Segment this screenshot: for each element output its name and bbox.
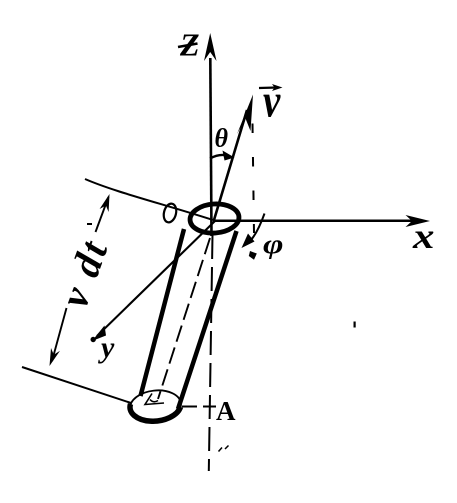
svg-text:A: A [216,396,236,426]
speck near x-axis [354,322,356,328]
z-axis arrowhead [204,33,217,61]
svg-text:θ: θ [215,124,229,153]
cylinder right side [178,231,237,409]
svg-text:x: x [412,216,435,256]
angle mark inside bottom face [145,394,164,405]
horizontal dashed line to A [182,406,216,408]
specks below A [219,446,229,452]
svg-text:φ: φ [263,229,284,259]
phi arc blot [249,251,257,260]
label z [178,27,200,63]
angle phi arc [248,214,265,244]
theta arc arrowhead [223,151,235,161]
x-axis line [213,220,424,223]
dimension line v dt upper segment [96,197,109,232]
extension line (bottom) [22,367,131,403]
angle theta arc [210,155,229,159]
dimension lower arrowhead [50,348,61,366]
vector v arrowhead [237,95,253,135]
svg-text:y: y [98,331,115,364]
extension line through O (top) [85,179,213,220]
z-axis line [210,58,211,236]
cylinder top face ellipse [189,202,240,234]
vector v line [214,110,247,220]
cylinder left side [141,229,185,396]
dimension upper arrowhead [100,194,110,212]
label O (origin) [162,202,178,223]
cylinder bottom face ellipse (thin top arc) [129,388,183,424]
dashed projection of v onto x-axis [253,124,255,234]
phi arc arrowhead [242,234,255,249]
dimension line v dt lower segment [52,308,67,361]
label v with arrow [259,75,283,128]
y-axis line [97,221,215,336]
svg-text:v: v [263,75,281,128]
speck near dimension line [87,223,92,225]
y-axis arrowhead [92,326,106,342]
z-axis dashed extension below origin [209,235,213,471]
cylinder bottom face thick lower arc [130,404,181,421]
x-axis arrowhead [406,215,431,227]
cylinder axis dashed [158,238,210,399]
